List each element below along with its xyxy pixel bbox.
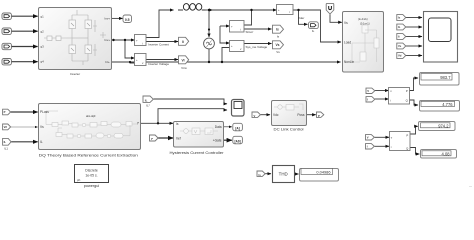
svg-text:Vder: Vder [298, 16, 304, 20]
svg-text:P: P [318, 114, 320, 118]
svg-text:Vdc: Vdc [273, 113, 279, 117]
svg-text:[A6]: [A6] [234, 140, 240, 144]
svg-text:THD: THD [279, 172, 288, 177]
svg-text:V: V [367, 136, 369, 140]
svg-text:IL: IL [40, 140, 43, 144]
svg-text:Iref: Iref [176, 136, 181, 140]
svg-text:P: P [406, 133, 408, 137]
svg-text:Inv+: Inv+ [104, 38, 110, 42]
svg-text:NonLin: NonLin [344, 60, 354, 64]
svg-text:Vi: Vi [181, 58, 184, 62]
svg-text:V2: V2 [4, 125, 8, 129]
svg-text:Inverter Voltage: Inverter Voltage [148, 62, 169, 66]
svg-text:Is: Is [176, 122, 179, 126]
svg-text:983.7: 983.7 [440, 75, 451, 80]
svg-text:1e-05 s.: 1e-05 s. [85, 173, 97, 177]
svg-text:DQ Theory Based Reference Curr: DQ Theory Based Reference Current Extrac… [39, 153, 138, 158]
svg-text:...: ... [469, 184, 472, 188]
svg-text:P: P [406, 89, 408, 93]
svg-text:0.04986: 0.04986 [316, 170, 330, 175]
svg-text:[A]: [A] [235, 127, 239, 131]
svg-text:0.5: 0.5 [125, 18, 130, 22]
svg-text:g2: g2 [41, 29, 45, 33]
svg-text:P: P [4, 110, 6, 114]
svg-text:(2+0.2s): (2+0.2s) [358, 17, 368, 21]
svg-text:powergui: powergui [84, 184, 100, 188]
svg-text:Data: Data [215, 125, 222, 129]
svg-text:g1: g1 [41, 14, 45, 18]
svg-text:974.2: 974.2 [438, 123, 449, 128]
svg-text:IL: IL [145, 98, 148, 102]
svg-text:4.08: 4.08 [442, 151, 451, 156]
svg-text:Inverter Current: Inverter Current [148, 42, 169, 46]
svg-text:IL: IL [4, 140, 7, 144]
svg-text:IL: IL [312, 29, 315, 33]
svg-text:V: V [254, 114, 256, 118]
svg-text:Vs: Vs [40, 125, 44, 129]
svg-text:Poss: Poss [297, 113, 304, 117]
svg-text:abc-dq0: abc-dq0 [86, 114, 96, 118]
svg-text:4.776: 4.776 [442, 102, 453, 107]
svg-text:Sys_me Voltage: Sys_me Voltage [246, 45, 268, 49]
svg-text:g3: g3 [41, 45, 45, 49]
svg-text:+Gate: +Gate [213, 138, 222, 142]
svg-text:Vs: Vs [398, 44, 402, 48]
svg-text:V: V [367, 89, 369, 93]
svg-text:Inv+: Inv+ [104, 17, 110, 21]
svg-text:IL1: IL1 [4, 147, 8, 151]
svg-text:Vs: Vs [276, 50, 280, 54]
svg-text:Vd: Vd [398, 54, 402, 58]
svg-text:ph: ph [77, 178, 81, 182]
svg-text:Ii: Ii [398, 35, 400, 39]
svg-text:DC Link Control: DC Link Control [274, 127, 304, 131]
svg-text:SCurr: SCurr [246, 30, 254, 34]
svg-text:Vs: Vs [344, 21, 348, 25]
svg-text:Hysteresis Current Controller: Hysteresis Current Controller [170, 151, 225, 155]
svg-text:Inverter: Inverter [70, 72, 80, 76]
svg-text:Is: Is [276, 28, 279, 32]
svg-text:Inv-: Inv- [105, 60, 110, 64]
svg-text:Discrete: Discrete [85, 168, 98, 172]
svg-text:PLoss: PLoss [40, 110, 49, 114]
svg-text:Ii: Ii [182, 40, 184, 44]
svg-text:g4: g4 [41, 60, 45, 64]
svg-text:Vinv: Vinv [181, 66, 187, 70]
svg-text:Vs: Vs [275, 43, 279, 47]
svg-text:Load: Load [344, 40, 351, 44]
svg-text:IL: IL [398, 25, 401, 29]
